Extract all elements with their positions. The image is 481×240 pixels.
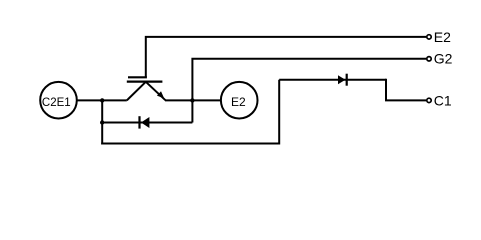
IGBT Q1 emitter lead xyxy=(146,82,166,100)
diode D2 series anode triangle xyxy=(338,75,345,84)
diode D1 freewheel anode triangle xyxy=(141,117,149,128)
wire bottom rail xyxy=(101,80,279,144)
diode D1 freewheel cathode bar xyxy=(138,116,140,128)
wire to series diode xyxy=(279,79,386,81)
IGBT Q1 body bar xyxy=(127,80,163,82)
IGBT Q1 emitter arrowhead xyxy=(157,91,164,98)
terminal pin C1 xyxy=(427,98,431,102)
node J1 xyxy=(100,98,104,102)
terminal circle E2 mid xyxy=(221,82,258,119)
IGBT Q1 gate bar xyxy=(128,76,147,78)
svg-text:C2E1: C2E1 xyxy=(42,97,71,109)
terminal pin G2 xyxy=(427,57,431,61)
wire emitter to E2 circle xyxy=(165,99,221,101)
terminal circle C2E1 xyxy=(40,82,77,119)
IGBT Q1 gate lead xyxy=(146,37,426,77)
wire diode branch horizontal xyxy=(102,122,192,124)
wire G2 branch xyxy=(192,59,426,101)
svg-text:C1: C1 xyxy=(434,92,452,108)
IGBT Q1 collector lead xyxy=(127,82,146,101)
svg-text:E2: E2 xyxy=(231,95,246,109)
svg-text:E2: E2 xyxy=(434,29,451,45)
terminal pin E2 xyxy=(427,35,431,39)
diode D2 series cathode bar xyxy=(346,74,348,86)
wire emitter node down to diode branch xyxy=(191,100,193,122)
wire C2E1 to collector node xyxy=(78,99,127,101)
node J2 xyxy=(190,98,194,102)
wire down to C1 xyxy=(386,79,426,101)
wire J1 down to bottom rail xyxy=(101,100,103,144)
svg-text:G2: G2 xyxy=(434,51,453,67)
node J3 xyxy=(100,120,104,124)
